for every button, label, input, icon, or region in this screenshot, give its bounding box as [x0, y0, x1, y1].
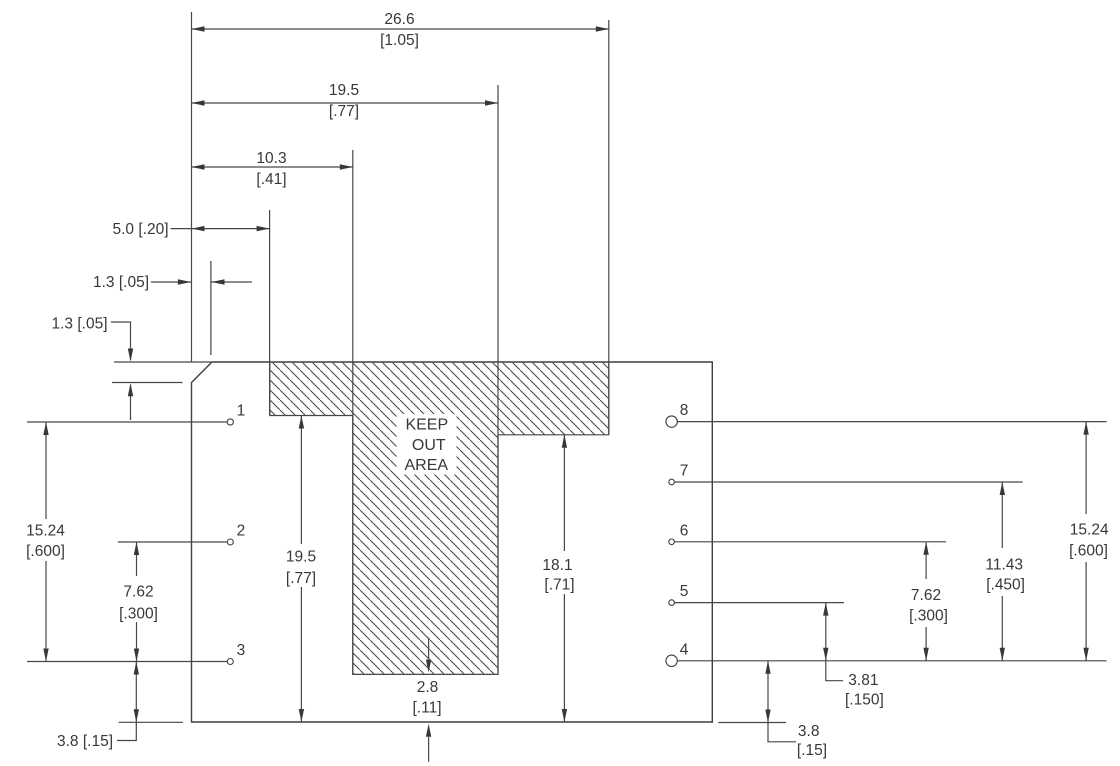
pin 7 label — [680, 463, 689, 480]
svg-text:2.8: 2.8 — [417, 679, 439, 696]
svg-text:4: 4 — [680, 641, 689, 658]
pin 4 label — [680, 641, 689, 658]
extension line 10.3 right / stem left edge — [352, 150, 354, 674]
svg-text:[.300]: [.300] — [909, 608, 948, 625]
svg-text:10.3: 10.3 — [256, 150, 286, 167]
pin 8 row line — [677, 421, 1106, 423]
pin 5 pad circle — [669, 600, 675, 606]
svg-text:[.41]: [.41] — [256, 171, 286, 188]
pin 3 label — [237, 642, 246, 659]
svg-text:[.15]: [.15] — [797, 742, 827, 759]
pin 8 label — [680, 402, 689, 419]
svg-text:[.71]: [.71] — [544, 577, 574, 594]
svg-text:[.77]: [.77] — [329, 103, 359, 120]
extension line 19.5 right / stem right edge — [497, 85, 499, 674]
svg-text:KEEP: KEEP — [405, 417, 448, 434]
dimension 1.3 [.05] chamfer width — [93, 274, 252, 291]
dimension 5.0 [.20] — [112, 221, 269, 238]
keep-out text — [405, 417, 449, 474]
pin 2 label — [237, 523, 246, 540]
svg-text:3: 3 — [237, 642, 246, 659]
pin 1 pad circle — [227, 419, 233, 425]
svg-text:15.24: 15.24 — [26, 523, 65, 540]
svg-text:[.77]: [.77] — [286, 570, 316, 587]
pin 3 row line — [27, 661, 227, 663]
body bottom level extension left — [119, 721, 183, 723]
extension line body left edge — [191, 12, 193, 362]
svg-text:1.3 [.05]: 1.3 [.05] — [93, 274, 149, 291]
svg-text:11.43: 11.43 — [985, 557, 1023, 574]
svg-text:18.1: 18.1 — [542, 557, 572, 574]
pin 4 row line — [677, 660, 1106, 662]
pin 6 pad circle — [669, 539, 675, 545]
svg-text:[.150]: [.150] — [845, 692, 884, 709]
svg-text:19.5: 19.5 — [329, 82, 359, 99]
package body outline — [192, 362, 713, 722]
svg-text:[.600]: [.600] — [1069, 543, 1108, 560]
dimension 11.43 [.450] — [985, 482, 1025, 661]
svg-text:1: 1 — [237, 403, 246, 420]
pin 8 pad circle — [666, 416, 677, 427]
svg-text:[1.05]: [1.05] — [380, 32, 419, 49]
extension line 26.6 right — [608, 20, 610, 435]
svg-text:[.11]: [.11] — [412, 700, 441, 717]
dimension 2.8 [.11] — [412, 638, 441, 762]
svg-text:7.62: 7.62 — [123, 584, 153, 601]
extension line chamfer bottom level — [112, 382, 183, 384]
svg-text:5: 5 — [680, 583, 689, 600]
pin 1 label — [237, 403, 246, 420]
dimension 3.8 [.15] right — [765, 661, 827, 759]
pin 3 pad circle — [227, 659, 233, 665]
svg-text:26.6: 26.6 — [384, 11, 414, 28]
svg-text:3.8: 3.8 — [798, 723, 820, 740]
pin 7 row line — [674, 481, 1022, 483]
svg-text:1.3 [.05]: 1.3 [.05] — [51, 316, 107, 333]
dimension 7.62 [.300] left — [119, 542, 158, 662]
dimension 3.81 [.150] — [823, 603, 884, 709]
dimension 10.3 [.41] — [192, 150, 353, 188]
svg-text:5.0 [.20]: 5.0 [.20] — [112, 221, 168, 238]
svg-text:8: 8 — [680, 402, 689, 419]
keep-out area hatched region — [270, 363, 609, 675]
dimension 26.6 [1.05] — [192, 11, 609, 49]
pin 6 label — [680, 522, 689, 539]
pin 2 row line — [118, 541, 227, 543]
svg-text:19.5: 19.5 — [286, 549, 316, 566]
svg-text:[.600]: [.600] — [26, 543, 65, 560]
pin 2 pad circle — [227, 539, 233, 545]
svg-text:2: 2 — [237, 523, 246, 540]
svg-text:3.8 [.15]: 3.8 [.15] — [57, 733, 113, 750]
dimension 3.8 [.15] left — [57, 662, 139, 751]
pin 7 pad circle — [669, 479, 675, 485]
dimension 19.5 [.77] vertical — [286, 416, 316, 723]
svg-text:[.450]: [.450] — [986, 577, 1025, 594]
svg-text:7: 7 — [680, 463, 689, 480]
svg-text:[.300]: [.300] — [119, 606, 158, 623]
pin 5 label — [680, 583, 689, 600]
pin 6 row line — [674, 541, 946, 543]
svg-text:OUT: OUT — [412, 437, 446, 454]
dimension 18.1 [.71] vertical — [542, 435, 574, 722]
dimension 7.62 [.300] right — [909, 542, 948, 661]
keep-out area boundary — [270, 363, 609, 675]
dimension 15.24 [.600] right — [1069, 422, 1109, 661]
pin 1 row line — [27, 421, 227, 423]
extension line chamfer width — [210, 261, 212, 355]
svg-text:15.24: 15.24 — [1070, 522, 1109, 539]
svg-text:3.81: 3.81 — [848, 672, 878, 689]
extension line top edge level — [114, 361, 212, 363]
pin 4 pad circle — [666, 655, 677, 666]
dimension 19.5 [.77] horizontal — [192, 82, 499, 120]
dimension 15.24 [.600] left — [26, 422, 65, 662]
dimension 1.3 [.05] chamfer height — [51, 316, 133, 421]
pin 5 row line — [674, 602, 844, 604]
svg-text:7.62: 7.62 — [911, 587, 941, 604]
body bottom level extension right — [718, 722, 786, 724]
svg-text:6: 6 — [680, 522, 689, 539]
extension line 5.0 right / keep-out left edge — [269, 210, 271, 416]
svg-text:AREA: AREA — [405, 457, 449, 474]
